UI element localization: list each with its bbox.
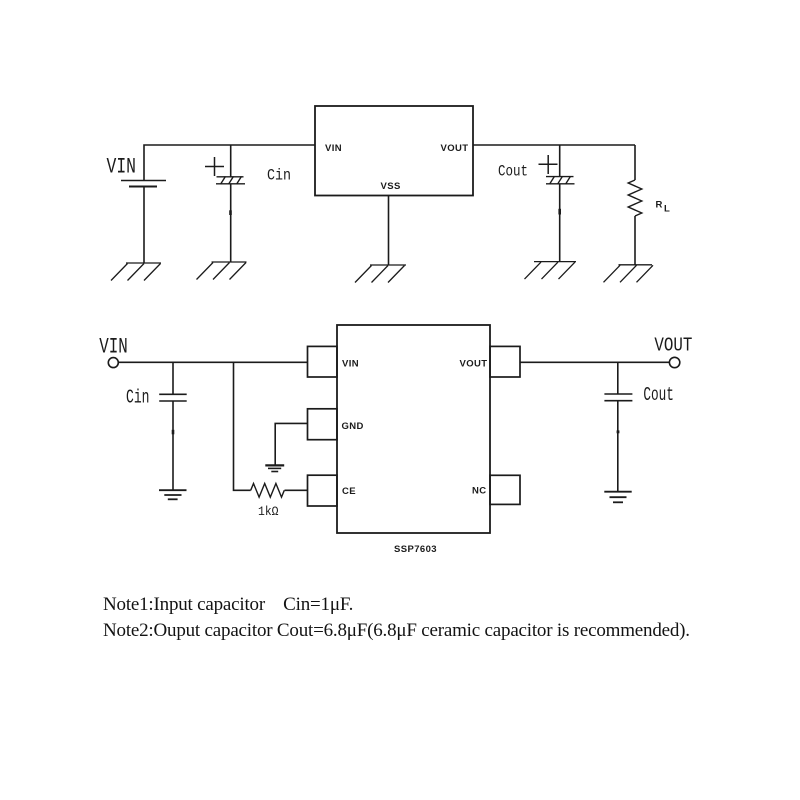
wire Cin to ground — [230, 184, 232, 262]
ground (under Cout) — [525, 262, 577, 280]
pin box VIN (U2) — [308, 346, 338, 377]
pin box CE (U2) — [308, 475, 338, 506]
wire battery to ground — [143, 187, 145, 264]
battery V1 (VIN source) — [121, 181, 166, 187]
svg-text:VOUT: VOUT — [654, 335, 692, 357]
resistor RL — [628, 180, 642, 216]
svg-text:VSS: VSS — [381, 181, 401, 192]
node mark on Cout wire — [558, 209, 561, 215]
svg-text:CE: CE — [342, 486, 356, 497]
plus sign (Cin polarity) — [205, 157, 224, 176]
wire junction to Cin (bottom) — [172, 362, 174, 394]
svg-text:Cout: Cout — [643, 384, 674, 406]
wire VOUT pin to output terminal — [520, 361, 669, 363]
ground (GND pin, bottom circuit) — [265, 465, 284, 471]
wire VSS to ground — [388, 196, 390, 266]
label RL — [656, 200, 671, 215]
wire Cin to ground — [172, 401, 174, 490]
ground (under Cin, bottom circuit) — [159, 490, 187, 499]
op-amp U2 (SSP7603 regulator IC, bottom circuit) — [337, 325, 490, 533]
svg-text:VOUT: VOUT — [460, 359, 488, 370]
capacitor Cin (top circuit, polarized) — [216, 176, 245, 184]
capacitor Cout (top circuit, polarized) — [546, 176, 575, 184]
capacitor Cout (bottom circuit) — [604, 394, 632, 401]
ground (under Cout, bottom circuit) — [604, 492, 631, 503]
wire VIN terminal to IC pin — [118, 361, 307, 363]
wire RL to ground — [634, 216, 636, 265]
wire Cout to ground — [617, 401, 619, 492]
plus sign (Cout polarity) — [539, 155, 558, 174]
wire Cout to ground — [559, 184, 561, 262]
svg-text:VIN: VIN — [325, 143, 342, 154]
resistor R1 (1k, CE pulldown) — [251, 484, 285, 498]
ground (under VSS) — [355, 265, 406, 283]
wire junction down to CE resistor — [234, 362, 251, 490]
pin box NC (U2) — [490, 475, 520, 504]
svg-text:GND: GND — [342, 421, 364, 432]
node mark on Cin wire — [229, 210, 232, 215]
capacitor Cin (bottom circuit) — [159, 394, 187, 401]
svg-text:VIN: VIN — [107, 155, 137, 180]
wire IC VOUT to RL (top circuit output net) — [473, 144, 635, 146]
wire junction to Cout (bottom) — [617, 362, 619, 394]
svg-text:Cin: Cin — [267, 167, 291, 185]
node mark on Cout wire (bottom) — [617, 430, 620, 433]
wire GND pin to ground — [275, 423, 307, 465]
wire battery to IC VIN (top circuit input net) — [144, 145, 315, 181]
pin box VOUT (U2) — [490, 346, 520, 377]
svg-text:VIN: VIN — [342, 359, 359, 370]
svg-text:SSP7603: SSP7603 — [394, 544, 437, 555]
ground (under battery) — [111, 263, 161, 281]
note 1 text — [103, 594, 353, 616]
svg-text:L: L — [664, 204, 670, 215]
note 2 text — [103, 620, 690, 642]
svg-text:Cout: Cout — [498, 163, 528, 181]
wire resistor to CE pin — [285, 489, 308, 491]
pin box GND (U2) — [308, 409, 338, 440]
node mark on Cin wire (bottom) — [172, 430, 175, 435]
wire junction to Cin top plate — [230, 145, 232, 177]
ground (under RL) — [604, 265, 654, 283]
svg-text:NC: NC — [472, 486, 487, 497]
wire junction to Cout top plate — [559, 145, 561, 177]
svg-text:R: R — [656, 200, 663, 211]
node VOUT terminal (output) — [669, 357, 679, 367]
svg-text:VIN: VIN — [99, 335, 128, 360]
node VIN terminal (input) — [108, 358, 118, 368]
svg-text:1kΩ: 1kΩ — [258, 504, 279, 519]
svg-text:VOUT: VOUT — [441, 143, 469, 154]
wire top to resistor RL — [634, 145, 636, 180]
svg-text:Cin: Cin — [126, 386, 150, 408]
op-amp U1 (regulator IC, top circuit) — [315, 106, 473, 196]
ground (under Cin) — [197, 262, 247, 280]
